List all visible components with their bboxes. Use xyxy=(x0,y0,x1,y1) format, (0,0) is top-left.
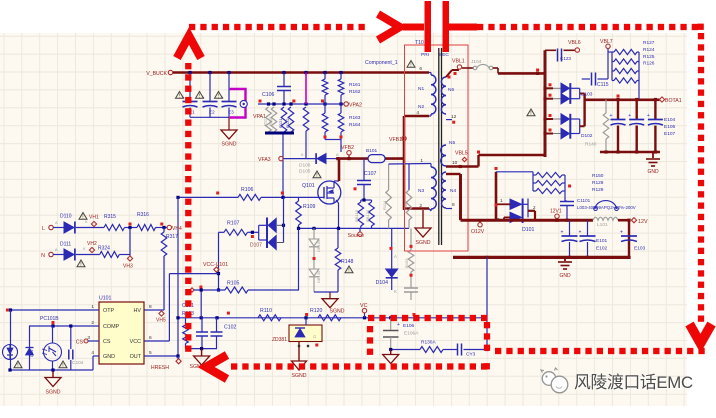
svg-text:SGND: SGND xyxy=(46,390,61,396)
svg-text:1: 1 xyxy=(420,158,423,164)
svg-text:K: K xyxy=(83,246,86,251)
svg-text:K: K xyxy=(394,289,397,294)
svg-text:O12V: O12V xyxy=(471,229,485,235)
svg-text:E106: E106 xyxy=(403,323,415,329)
svg-text:OTP: OTP xyxy=(103,308,114,314)
svg-text:E2: E2 xyxy=(209,110,215,115)
svg-text:!: ! xyxy=(179,94,180,100)
svg-text:R150: R150 xyxy=(592,173,604,179)
svg-text:E103: E103 xyxy=(634,246,646,252)
svg-text:Component_1: Component_1 xyxy=(365,60,398,66)
svg-text:4: 4 xyxy=(416,110,419,116)
svg-text:D106: D106 xyxy=(299,163,311,169)
svg-text:VH1: VH1 xyxy=(89,215,99,221)
svg-text:E105: E105 xyxy=(664,124,676,130)
svg-text:10: 10 xyxy=(452,160,458,166)
svg-text:C107: C107 xyxy=(364,171,377,177)
svg-text:+: + xyxy=(397,322,400,328)
svg-text:R105: R105 xyxy=(227,281,240,287)
svg-text:R117: R117 xyxy=(263,116,268,126)
svg-text:B101: B101 xyxy=(366,148,378,154)
svg-text:A: A xyxy=(336,152,339,157)
svg-text:6: 6 xyxy=(419,66,422,72)
svg-text:CS: CS xyxy=(76,340,84,346)
svg-text:HRESH: HRESH xyxy=(151,365,169,371)
svg-text:RB119: RB119 xyxy=(354,209,359,222)
svg-text:D30: D30 xyxy=(29,349,34,357)
svg-text:VH5: VH5 xyxy=(156,318,166,324)
svg-text:+: + xyxy=(579,230,582,236)
svg-text:2: 2 xyxy=(91,320,94,326)
svg-text:A: A xyxy=(55,220,58,225)
svg-text:Source: Source xyxy=(348,233,365,239)
svg-text:5: 5 xyxy=(149,350,152,356)
svg-text:E101: E101 xyxy=(596,238,608,244)
svg-text:2: 2 xyxy=(419,203,422,209)
svg-text:R140: R140 xyxy=(585,142,597,148)
svg-text:PRI: PRI xyxy=(421,52,429,58)
svg-text:BOTA1: BOTA1 xyxy=(665,98,682,104)
svg-text:VBL6: VBL6 xyxy=(568,40,581,46)
svg-text:V_BUCK: V_BUCK xyxy=(146,71,167,77)
svg-text:U101: U101 xyxy=(99,296,112,302)
svg-text:VFA3: VFA3 xyxy=(258,157,271,163)
svg-text:!: ! xyxy=(80,262,81,268)
svg-text:R126: R126 xyxy=(643,61,655,67)
svg-text:DB130: DB130 xyxy=(316,270,321,283)
svg-text:R122: R122 xyxy=(285,118,290,128)
svg-text:K: K xyxy=(301,152,304,157)
svg-text:+: + xyxy=(561,230,564,236)
svg-text:R114: R114 xyxy=(382,200,387,210)
svg-text:8: 8 xyxy=(452,202,455,208)
svg-text:+: + xyxy=(647,113,650,119)
svg-text:A: A xyxy=(394,254,397,259)
svg-text:VBL5: VBL5 xyxy=(455,151,468,157)
svg-text:R316: R316 xyxy=(137,212,149,218)
svg-text:R148: R148 xyxy=(341,259,354,265)
svg-text:R121: R121 xyxy=(278,118,283,128)
svg-text:8: 8 xyxy=(149,304,152,310)
svg-text:R115: R115 xyxy=(403,200,408,210)
svg-text:R161: R161 xyxy=(349,82,361,88)
svg-text:A: A xyxy=(55,247,58,252)
svg-text:Q101: Q101 xyxy=(302,183,315,189)
svg-text:COMP: COMP xyxy=(103,324,120,330)
svg-text:3: 3 xyxy=(497,217,500,222)
svg-text:R124: R124 xyxy=(643,47,655,53)
svg-text:R120: R120 xyxy=(310,308,323,314)
svg-text:VC: VC xyxy=(360,303,368,309)
svg-text:R155: R155 xyxy=(404,258,409,268)
svg-text:R109: R109 xyxy=(303,204,316,210)
svg-text:SEC: SEC xyxy=(439,52,449,58)
svg-text:C1101: C1101 xyxy=(577,198,591,203)
svg-text:R106: R106 xyxy=(241,187,254,193)
svg-text:D110: D110 xyxy=(60,214,72,220)
svg-text:C123: C123 xyxy=(560,56,571,61)
svg-text:D101: D101 xyxy=(522,227,535,233)
svg-text:PC101B: PC101B xyxy=(40,316,59,322)
svg-text:R118: R118 xyxy=(268,116,273,126)
svg-text:!: ! xyxy=(62,363,63,369)
svg-text:D103: D103 xyxy=(581,92,593,98)
svg-text:R127: R127 xyxy=(643,40,655,46)
svg-text:OUT: OUT xyxy=(130,354,142,360)
svg-text:+: + xyxy=(610,113,613,119)
svg-text:!: ! xyxy=(348,268,349,274)
svg-text:SGND: SGND xyxy=(292,373,307,379)
svg-text:R163: R163 xyxy=(349,115,361,121)
svg-text:N3: N3 xyxy=(418,188,424,194)
svg-text:R164: R164 xyxy=(349,122,361,128)
svg-text:VH3: VH3 xyxy=(123,264,133,270)
svg-text:CS: CS xyxy=(103,339,111,345)
svg-text:C115: C115 xyxy=(597,82,609,88)
svg-text:DB109: DB109 xyxy=(316,239,321,252)
svg-text:D102: D102 xyxy=(581,133,593,139)
svg-text:R110: R110 xyxy=(260,308,272,314)
svg-text:风陵渡口话EMC: 风陵渡口话EMC xyxy=(574,373,693,392)
svg-text:R324: R324 xyxy=(98,246,110,252)
svg-text:R128: R128 xyxy=(592,180,604,186)
svg-text:N4: N4 xyxy=(450,188,456,194)
svg-text:RB120: RB120 xyxy=(365,209,370,222)
svg-text:2: 2 xyxy=(533,205,536,210)
svg-text:R125: R125 xyxy=(643,54,655,60)
svg-text:C102: C102 xyxy=(224,325,237,331)
svg-text:E107: E107 xyxy=(664,131,676,137)
svg-text:VFB2: VFB2 xyxy=(341,145,354,151)
svg-text:VCC: VCC xyxy=(130,339,141,345)
svg-text:R129: R129 xyxy=(592,187,604,193)
svg-text:!: ! xyxy=(530,111,531,117)
svg-text:R162: R162 xyxy=(349,89,361,95)
svg-text:GND: GND xyxy=(103,354,115,360)
svg-text:D: D xyxy=(312,335,317,338)
svg-text:D104: D104 xyxy=(376,280,389,286)
svg-text:VH4: VH4 xyxy=(172,226,182,232)
svg-text:4: 4 xyxy=(91,350,94,356)
svg-text:SGND: SGND xyxy=(222,142,237,148)
svg-text:!: ! xyxy=(82,215,83,221)
svg-text:+: + xyxy=(620,230,623,236)
svg-text:J104: J104 xyxy=(471,59,482,65)
svg-text:D105: D105 xyxy=(299,169,311,175)
svg-text:N2: N2 xyxy=(418,104,424,110)
svg-text:GND: GND xyxy=(647,169,659,175)
svg-text:VFB1: VFB1 xyxy=(389,137,402,143)
svg-text:!: ! xyxy=(17,363,18,369)
svg-text:L101: L101 xyxy=(597,222,608,228)
svg-text:!: ! xyxy=(218,94,219,100)
svg-text:VBL1: VBL1 xyxy=(452,59,465,65)
svg-text:VPA2: VPA2 xyxy=(349,103,362,109)
svg-text:!: ! xyxy=(410,63,411,69)
svg-text:E102: E102 xyxy=(596,246,608,252)
svg-text:R317: R317 xyxy=(166,234,178,240)
svg-text:12V1: 12V1 xyxy=(550,209,562,215)
svg-text:C106: C106 xyxy=(262,92,275,98)
svg-text:12V: 12V xyxy=(638,219,648,225)
svg-text:CY3: CY3 xyxy=(466,352,476,358)
svg-text:GND: GND xyxy=(559,273,571,279)
svg-text:SGND: SGND xyxy=(330,309,345,315)
svg-text:R107: R107 xyxy=(227,221,240,227)
svg-text:1: 1 xyxy=(500,198,503,203)
svg-text:N5: N5 xyxy=(449,140,455,146)
svg-text:R130A: R130A xyxy=(421,340,436,346)
svg-text:C104: C104 xyxy=(72,360,84,366)
svg-text:E104: E104 xyxy=(664,117,676,123)
svg-text:VCC-U101: VCC-U101 xyxy=(203,262,228,268)
svg-text:E106A: E106A xyxy=(404,331,419,337)
svg-text:E3: E3 xyxy=(228,110,234,115)
svg-text:ZD381: ZD381 xyxy=(272,337,287,343)
svg-text:D107: D107 xyxy=(250,243,262,249)
svg-text:N6: N6 xyxy=(448,87,454,93)
svg-text:N1: N1 xyxy=(418,86,424,92)
svg-text:!: ! xyxy=(199,94,200,100)
svg-text:!: ! xyxy=(316,173,317,179)
svg-text:VH2: VH2 xyxy=(87,241,97,247)
svg-text:+: + xyxy=(628,113,631,119)
svg-text:SGND: SGND xyxy=(416,240,431,246)
svg-text:L: L xyxy=(42,226,45,232)
svg-text:6: 6 xyxy=(149,335,152,341)
svg-text:K: K xyxy=(85,219,88,224)
svg-text:1: 1 xyxy=(91,304,94,310)
svg-text:L003-40B09APQ2+10%-200V: L003-40B09APQ2+10%-200V xyxy=(577,205,636,210)
svg-text:D111: D111 xyxy=(60,242,71,248)
svg-text:N: N xyxy=(41,253,45,259)
svg-text:VBL7: VBL7 xyxy=(600,39,613,45)
svg-text:HV: HV xyxy=(134,308,142,314)
svg-text:R315: R315 xyxy=(104,214,116,220)
